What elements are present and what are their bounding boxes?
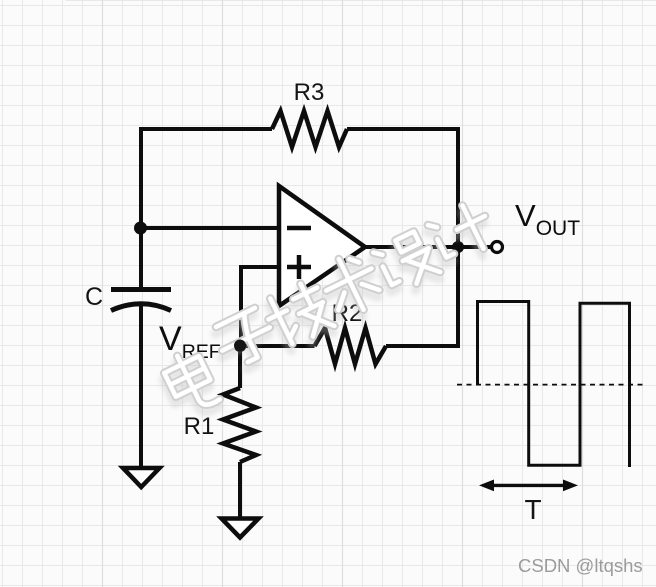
resistor R2 [315,328,387,364]
wire [139,129,143,226]
wire [141,129,272,289]
svg-text:R3: R3 [294,79,325,106]
node C (output) [452,241,464,253]
resistor R3 [272,111,347,147]
wire [365,245,491,249]
ground (C branch) [123,468,160,487]
wire [141,226,279,230]
wire [241,267,279,346]
resistor R1 [223,388,256,462]
wire [238,346,242,388]
output waveform [478,302,630,468]
wire [347,129,458,346]
svg-text:R1: R1 [184,413,215,440]
zero reference dashed line [457,384,646,386]
capacitor C [111,290,171,311]
wire [238,462,242,523]
wire [240,344,315,348]
period arrow T [479,480,578,492]
op-amp U1 [279,186,365,306]
node B (VREF) [234,339,247,352]
node A (inverting input / C) [134,222,147,235]
node B (VREF) junction dot repaint [234,340,246,352]
watermark 电子技术设计 (stylized) [159,199,497,424]
ground (R1 branch) [222,519,259,538]
output terminal circle [492,242,503,253]
svg-text:C: C [85,283,103,311]
svg-text:CSDN @ltqshs: CSDN @ltqshs [518,555,643,576]
wire [139,304,143,473]
svg-text:T: T [524,494,541,525]
